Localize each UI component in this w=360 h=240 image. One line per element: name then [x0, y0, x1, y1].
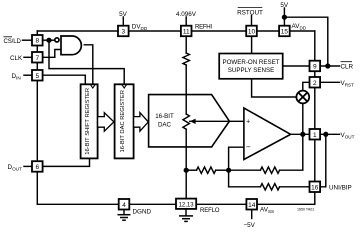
wire DAC wiper to op-amp + input: [190, 120, 244, 122]
svg-text:+: +: [246, 118, 250, 125]
wire 5V to CLR pull-up: [284, 17, 327, 66]
wire VRST pin 2 to label: [320, 81, 340, 83]
pin 8 CS/LD: [32, 35, 43, 46]
svg-text:REFHI: REFHI: [195, 24, 212, 31]
resistor R1: [197, 167, 216, 173]
svg-text:10: 10: [248, 29, 256, 36]
svg-text:16-BIT DAC REGISTER: 16-BIT DAC REGISTER: [120, 90, 126, 152]
junction op-amp output node: [301, 132, 305, 136]
wire RSTOUT pin 10 to POR block: [251, 36, 253, 53]
svg-text:3: 3: [121, 29, 125, 36]
svg-text:2: 2: [313, 80, 317, 87]
16-bit DAC register: [115, 84, 134, 158]
wire REFLO node to pins 12,13: [185, 170, 187, 198]
wire R3 to UNI/BIP pin 16: [280, 186, 310, 188]
op-amp A1: [244, 108, 291, 160]
wiper arrowhead: [190, 119, 196, 124]
wire REFLO pins 12,13 to ground: [185, 209, 187, 215]
junction 5V/AVDD: [283, 15, 287, 19]
pin 2 VRST: [310, 77, 321, 88]
label RSTOUT: [237, 8, 263, 17]
wire multiplier to VOUT node: [302, 104, 304, 135]
wire VOUT strap to UNI/BIP pin 16: [320, 134, 326, 187]
svg-text:UNI/BIP: UNI/BIP: [329, 185, 352, 192]
svg-text:6: 6: [35, 164, 39, 171]
svg-text:5V: 5V: [280, 2, 289, 9]
wire CS/LD down to DAC register clock: [49, 40, 124, 84]
wire CLK stub: [24, 56, 32, 58]
svg-text:DAC: DAC: [158, 122, 172, 129]
wire RSTOUT stub: [251, 16, 253, 26]
power-on reset supply sense block: [219, 54, 283, 79]
pin 16 UNI/BIP: [310, 182, 321, 193]
svg-text:CS/LD: CS/LD: [4, 39, 22, 45]
pin 1 VOUT: [310, 129, 321, 140]
junction REFLO node: [184, 168, 188, 172]
label CS/LD: [4, 37, 22, 45]
wire DOUT stub: [24, 165, 32, 167]
pins 12,13 REFLO: [176, 199, 196, 209]
svg-text:9: 9: [313, 64, 317, 71]
wire VRST pin 2 to multiplier: [303, 82, 310, 90]
svg-text:4: 4: [122, 202, 126, 209]
wire DIN to shift register: [43, 75, 86, 84]
resistor REFHI divider top: [183, 53, 189, 65]
label CLR: [341, 62, 354, 71]
pin 15 AVDD: [279, 26, 290, 37]
wire AVSS pin 14 to -5V: [251, 210, 253, 219]
pin 7 CLK: [32, 52, 43, 63]
wire summing node down to R3: [229, 170, 261, 187]
svg-text:5: 5: [35, 73, 39, 80]
svg-text:16: 16: [311, 184, 319, 191]
svg-text:16-BIT: 16-BIT: [155, 113, 174, 120]
wire 5V to DVDD pin 3: [122, 17, 124, 26]
16-bit DAC block: [149, 95, 230, 147]
wire summing node to feedback resistor R2: [229, 169, 261, 171]
pin 6 DOUT: [32, 161, 43, 172]
wire IC boundary bottom edge: [37, 203, 315, 205]
svg-text:16-BIT SHIFT REGISTER: 16-BIT SHIFT REGISTER: [85, 88, 91, 155]
wire DIN stub: [24, 74, 32, 76]
wire resistor to potentiometer: [185, 65, 187, 114]
svg-text:CLK: CLK: [10, 55, 23, 62]
svg-text:12,13: 12,13: [179, 202, 195, 208]
junction CS/LD node: [47, 38, 51, 42]
wire REFHI pin 11 into resistor: [185, 36, 187, 53]
wire CLR pin 9 to label: [320, 65, 340, 67]
pin 4 DGND: [119, 199, 130, 210]
resistor R3 UNI/BIP: [260, 184, 279, 190]
wire DGND pin 4 to ground: [123, 210, 125, 215]
wire IC boundary left edge: [36, 31, 38, 204]
wire op-amp output to VOUT pin 1: [291, 133, 310, 135]
junction summing node: [227, 168, 231, 172]
pin 3 DVDD: [118, 26, 129, 37]
svg-text:CLR: CLR: [341, 64, 354, 71]
wire 4.096V to REFHI pin 11: [185, 17, 187, 26]
wire IC boundary top edge: [37, 30, 315, 32]
pin 9 CLR: [310, 61, 321, 71]
svg-text:DGND: DGND: [133, 209, 152, 216]
wire R1 to summing node: [216, 169, 229, 171]
wire CLK to AND gate input: [43, 50, 61, 58]
wire AND output to shift register clock: [84, 45, 93, 85]
svg-text:14: 14: [248, 202, 256, 209]
svg-text:RSTOUT: RSTOUT: [237, 10, 263, 17]
pin 5 DIN: [32, 70, 43, 81]
wire shift register to DOUT: [43, 158, 90, 166]
ground REFLO: [179, 216, 193, 222]
svg-text:15: 15: [281, 29, 289, 36]
svg-text:5V: 5V: [119, 11, 128, 18]
wire 5V to AVDD pin 15: [283, 8, 285, 26]
junction VOUT external node: [324, 132, 328, 136]
svg-text:1: 1: [313, 132, 317, 139]
wire CS/LD stub: [23, 39, 33, 41]
svg-text:SUPPLY SENSE: SUPPLY SENSE: [228, 67, 275, 74]
svg-text:POWER-ON RESET: POWER-ON RESET: [222, 59, 279, 66]
wire POR block to CLR pin 9: [283, 65, 310, 67]
junction CLR pull-up: [326, 64, 330, 68]
svg-text:11: 11: [183, 29, 190, 36]
pin 10 RSTOUT: [246, 26, 257, 37]
wire potentiometer to REFLO node: [185, 129, 187, 170]
svg-text:1650 TA01: 1650 TA01: [297, 208, 314, 212]
svg-text:−: −: [246, 143, 251, 152]
wire R2 to VOUT node: [280, 134, 303, 170]
wire VOUT pin 1 to label: [320, 133, 340, 135]
bus arrow DAC register to DAC: [134, 113, 149, 132]
wire IC boundary right edge: [314, 31, 316, 204]
svg-text:8: 8: [35, 38, 39, 45]
wire summing node to op-amp - input: [229, 147, 244, 170]
wire POR block to multiplier: [252, 79, 297, 97]
wire REFLO node to resistor R1: [186, 169, 196, 171]
pin 11 REFHI: [181, 26, 192, 37]
pin 14 AVSS: [246, 199, 257, 210]
AND gate U1: [55, 36, 82, 55]
svg-text:REFLO: REFLO: [200, 207, 220, 214]
svg-text:4.096V: 4.096V: [176, 11, 197, 18]
bus arrow shift register to DAC register: [98, 113, 114, 132]
multiplier X1: [296, 91, 309, 104]
svg-text:−5V: −5V: [244, 222, 256, 229]
ground DGND: [118, 215, 131, 221]
svg-text:7: 7: [35, 55, 39, 62]
wire CS/LD to AND gate: [43, 39, 55, 41]
potentiometer DAC ladder: [183, 114, 189, 129]
resistor R2 feedback: [260, 167, 279, 173]
16-bit shift register: [81, 84, 98, 158]
